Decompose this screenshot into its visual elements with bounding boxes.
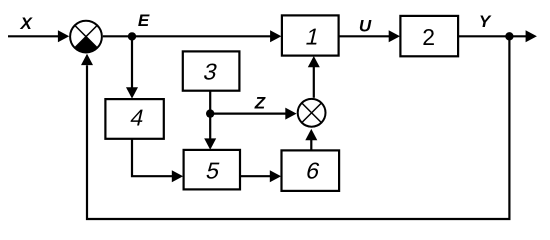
node E label bbox=[138, 11, 150, 30]
block 6 bbox=[282, 150, 340, 191]
block 3 bbox=[183, 51, 240, 90]
wire block 5 to block 6 bbox=[240, 170, 281, 182]
svg-text:E: E bbox=[138, 11, 150, 30]
wire input X bbox=[8, 30, 69, 42]
node Z label bbox=[254, 94, 266, 113]
wire node Z to block 5 bbox=[204, 114, 216, 150]
node U label bbox=[359, 17, 372, 36]
multiplier M1 bbox=[298, 99, 326, 127]
wire feedback Y to summing junction bbox=[81, 38, 509, 219]
summing junction S1 bbox=[70, 21, 102, 53]
svg-text:Y: Y bbox=[479, 12, 492, 31]
block 5 bbox=[184, 150, 240, 190]
svg-text:Z: Z bbox=[254, 94, 266, 113]
node Z junction bbox=[206, 109, 214, 117]
node Y label bbox=[479, 12, 492, 31]
svg-text:U: U bbox=[359, 17, 372, 36]
node E bbox=[128, 32, 136, 40]
wire node Z to multiplier bbox=[210, 108, 296, 120]
block 2 bbox=[400, 16, 458, 56]
block 4 bbox=[105, 99, 163, 139]
wire block 3 to node Z bbox=[209, 91, 211, 114]
wire summing junction to block 1 bbox=[103, 30, 282, 42]
wire block 6 to multiplier bbox=[305, 129, 317, 151]
wire block 2 to output Y bbox=[458, 30, 537, 42]
wire E to block 4 bbox=[126, 38, 138, 99]
block 1 bbox=[282, 15, 339, 55]
svg-text:2: 2 bbox=[422, 24, 435, 50]
node X label bbox=[20, 14, 34, 33]
wire block 4 to block 5 bbox=[132, 139, 183, 182]
svg-text:X: X bbox=[20, 14, 34, 33]
wire block 1 to block 2 bbox=[339, 30, 400, 42]
wire multiplier to block 1 bbox=[308, 56, 320, 98]
node Y bbox=[505, 32, 513, 40]
